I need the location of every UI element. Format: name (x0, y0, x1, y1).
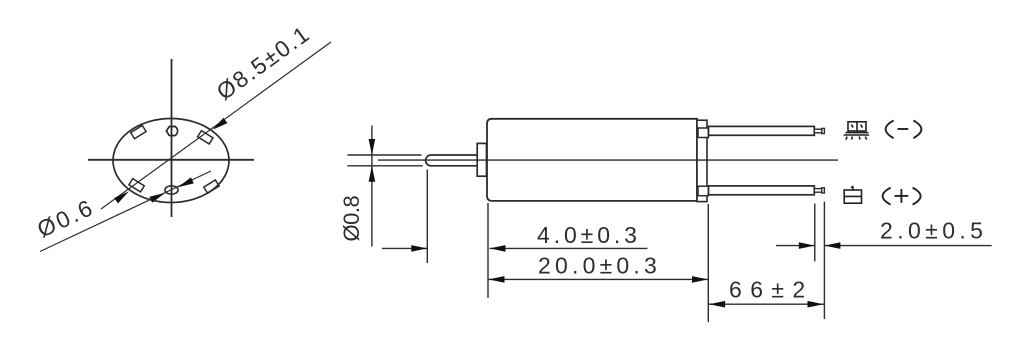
svg-text:20.0±0.3: 20.0±0.3 (538, 253, 661, 279)
crimp tab lower-left (129, 179, 144, 192)
2.0 left extension line (814, 204, 816, 262)
label 白 (white) glyph (844, 186, 861, 203)
66 right extension line (823, 202, 825, 319)
Ø8.5 arrow upper-right (211, 118, 228, 133)
motor body (487, 119, 697, 201)
4.0 extension line (shaft tip) (426, 170, 428, 264)
horizontal centerline (378, 159, 838, 161)
20.0 arrow left (489, 276, 505, 283)
motor can outline (end view ellipse) (113, 119, 229, 203)
2.0 arrow left (points right) (799, 242, 815, 249)
label （－） after 黑 (886, 120, 922, 138)
bearing boss (477, 143, 486, 176)
shaft hole (bottom small ellipse, Ø0.6) (165, 186, 178, 194)
crimp tab upper-left (131, 125, 146, 138)
vertical centerline (171, 59, 173, 217)
crimp tab upper-right (198, 131, 213, 144)
body-left extension line (487, 203, 489, 298)
66 arrow right (808, 301, 824, 308)
shaft (426, 155, 478, 166)
4.0±0.3 dimension line (382, 247, 427, 249)
Ø0.8 extension line top (347, 154, 421, 156)
svg-text:4.0±0.3: 4.0±0.3 (537, 222, 641, 248)
Ø8.5 diameter leader line (101, 42, 331, 209)
Ø0.8 arrow top (369, 139, 376, 155)
white wire stripped tip (814, 189, 822, 193)
20.0±0.3 dimension line (489, 278, 709, 280)
black wire (top) (709, 126, 815, 135)
Ø8.5 arrow lower-left (114, 189, 131, 204)
svg-text:Ø0.8: Ø0.8 (339, 196, 364, 242)
Ø0.6 leader line (40, 171, 211, 252)
terminal tab top (698, 128, 709, 138)
66±2 dimension line (708, 303, 824, 305)
4.0 arrow left (points right) (411, 245, 427, 252)
label 黑 (black) glyph (844, 122, 870, 140)
horizontal centerline (88, 159, 254, 161)
svg-text:66±2: 66±2 (729, 277, 814, 303)
label （＋） after 白 (883, 188, 921, 205)
crimp tab lower-right (204, 180, 219, 193)
Ø0.6 arrow right (176, 177, 193, 190)
Ø0.8 arrow bottom (369, 166, 376, 182)
svg-text:2.0±0.5: 2.0±0.5 (880, 218, 987, 244)
Ø0.6 arrow left (149, 190, 166, 203)
Ø0.8 dimension line vertical (371, 126, 373, 247)
2.0±0.5 dimension line (776, 245, 815, 247)
terminal tab bottom (698, 186, 709, 196)
black wire stripped tip (814, 129, 822, 133)
2.0 arrow right (points left) (824, 242, 840, 249)
white wire (bottom) (709, 186, 815, 195)
end cap (697, 120, 707, 201)
vent hole (top small circle) (166, 126, 177, 135)
66 arrow left (709, 301, 725, 308)
cap-right extension line (707, 204, 709, 322)
20.0 arrow right (692, 276, 708, 283)
4.0 arrow right (points left) (490, 245, 506, 252)
Ø0.8 extension line bottom (347, 165, 422, 167)
